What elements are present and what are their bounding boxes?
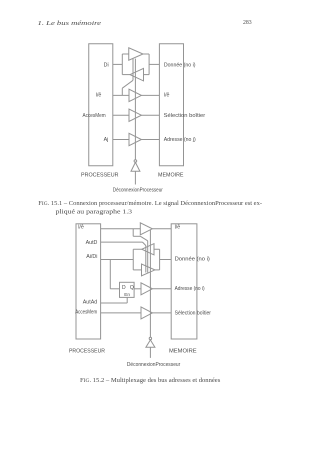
wire DeconnexionProcesseur stub (fig 15.1)	[134, 171, 136, 184]
svg-text:Sélection boîtier: Sélection boîtier	[175, 310, 212, 316]
inverter bubble (fig 15.2)	[149, 337, 151, 339]
wire transceiver bottom-left horizontal (fig 15.2)	[133, 269, 141, 271]
wire Selection boitier output	[141, 114, 159, 116]
wire l/e input	[113, 94, 129, 96]
wire transceiver left vertical (fig 15.2)	[132, 249, 134, 270]
wire enable vertical from l/e buffer to inverter (fig 15.2)	[149, 230, 151, 337]
wire l/e output	[141, 94, 159, 96]
wire transceiver right vertical	[148, 54, 150, 75]
svg-text:Adresse (no i): Adresse (no i)	[175, 286, 205, 292]
wire transceiver top-left horizontal	[122, 53, 128, 55]
memory box (fig 15.1)	[159, 44, 183, 166]
svg-text:l/ē: l/ē	[96, 93, 102, 99]
svg-text:Sélection boîtier: Sélection boîtier	[164, 113, 206, 119]
svg-text:l/ē: l/ē	[78, 225, 84, 231]
svg-text:FIG. 15.1 – Connexion processe: FIG. 15.1 – Connexion processeur/mémoire…	[38, 201, 262, 207]
wire transceiver top-left horizontal (fig 15.2)	[133, 248, 142, 250]
svg-text:l/ē: l/ē	[164, 93, 170, 99]
wire Donnee from transceiver to memory	[149, 63, 159, 65]
wire Selection boitier output (fig 15.2)	[152, 312, 171, 314]
tri-state buffer Aj (fig 15.1)	[129, 133, 141, 145]
tri-state buffer write direction (fig 15.2, points right)	[142, 264, 155, 276]
wire Aj input	[113, 139, 129, 141]
svg-text:FIG. 15.2 – Multiplexage des b: FIG. 15.2 – Multiplexage des bus adresse…	[80, 378, 221, 384]
svg-text:Q: Q	[130, 285, 134, 291]
wire to latch D input	[110, 288, 119, 290]
svg-text:Donnée (no i): Donnée (no i)	[175, 257, 211, 263]
wire transceiver bottom-right horizontal (fig 15.2)	[155, 269, 160, 271]
wire Donnee from transceiver to memory (fig 15.2)	[160, 259, 172, 261]
inverter bubble (fig 15.1)	[134, 160, 137, 163]
wire AutAd from processor	[101, 302, 128, 304]
svg-text:PROCESSEUR: PROCESSEUR	[69, 348, 105, 354]
inverter triangle pointing up (fig 15.2)	[146, 340, 155, 347]
svg-text:pliqué au paragraphe 1.3: pliqué au paragraphe 1.3	[56, 210, 132, 216]
wire transceiver bottom-right horizontal	[144, 74, 150, 76]
svg-text:AccesMem: AccesMem	[75, 310, 97, 316]
tri-state buffer read direction (fig 15.2, points left)	[142, 244, 154, 255]
wire latch Q output	[134, 288, 141, 290]
tri-state buffer AccesMem (fig 15.1)	[129, 109, 141, 121]
svg-text:l/ē: l/ē	[175, 225, 181, 231]
svg-text:PROCESSEUR: PROCESSEUR	[81, 173, 119, 179]
tri-state buffer write direction (fig 15.1, points right)	[129, 48, 143, 61]
wire vertical tap down to l/e line	[121, 88, 123, 95]
wire l/e tap diagonal to direction control	[140, 236, 147, 241]
tri-state buffer read direction (fig 15.1, points left)	[130, 68, 144, 81]
wire AutD from processor	[101, 241, 143, 243]
memory box (fig 15.2)	[171, 224, 197, 339]
wire transceiver bottom-left horizontal	[122, 74, 130, 76]
processor box (fig 15.2)	[76, 224, 101, 339]
wire diagonal from direction control to l/e tap	[122, 80, 133, 88]
tri-state buffer Adresse (fig 15.2)	[141, 283, 152, 295]
wire AutD diagonal to enable of transceiver	[143, 242, 146, 245]
wire transceiver top-right horizontal (fig 15.2)	[154, 248, 160, 250]
latch D Q box	[120, 282, 135, 297]
svg-text:MEMOIRE: MEMOIRE	[169, 348, 197, 354]
wire transceiver right vertical (fig 15.2)	[159, 249, 161, 270]
wire AccesMem input	[113, 114, 129, 116]
wire direction control vertical through data buffers	[132, 58, 134, 80]
tri-state buffer l/e (fig 15.1)	[129, 89, 141, 101]
wire AutD enable vertical through transceiver	[145, 246, 147, 273]
wire AccesMem input (fig 15.2)	[101, 312, 141, 314]
svg-text:AutD: AutD	[86, 240, 98, 246]
wire Ai/Di tap down to latch D input	[109, 260, 111, 289]
svg-text:MEMOIRE: MEMOIRE	[158, 173, 184, 179]
tri-state buffer l/e (fig 15.2)	[140, 223, 152, 235]
svg-text:AccesMem: AccesMem	[83, 113, 107, 119]
wire transceiver left vertical	[121, 54, 123, 75]
inverter triangle pointing up (fig 15.1)	[131, 162, 140, 171]
svg-text:DéconnexionProcesseur: DéconnexionProcesseur	[127, 362, 181, 368]
tri-state buffer Selection boitier (fig 15.2)	[141, 307, 152, 319]
wire direction control vertical (fig 15.2)	[147, 241, 149, 273]
wire l/e tap horizontal	[133, 235, 140, 237]
svg-text:1. Le bus mémoire: 1. Le bus mémoire	[38, 20, 102, 27]
svg-text:Donnée (no i): Donnée (no i)	[164, 62, 196, 68]
svg-text:En: En	[124, 292, 130, 297]
wire Adresse output (fig 15.2)	[152, 288, 171, 290]
wire transceiver top-right horizontal	[143, 53, 149, 55]
wire latch En stub	[126, 297, 128, 303]
svg-text:Adresse (no j): Adresse (no j)	[164, 137, 196, 143]
svg-text:AutAd: AutAd	[83, 299, 97, 305]
processor box (fig 15.1)	[89, 44, 113, 166]
svg-text:Ai/Di: Ai/Di	[86, 254, 97, 260]
wire l/e tap stub down	[132, 229, 134, 237]
wire DeconnexionProcesseur stub (fig 15.2)	[149, 347, 151, 358]
wire l/e input (fig 15.2)	[101, 228, 141, 230]
wire Ai/Di from processor to transceiver	[101, 259, 134, 261]
wire enable vertical from buffers to inverter	[134, 59, 136, 160]
svg-text:283: 283	[243, 20, 252, 26]
svg-text:DéconnexionProcesseur: DéconnexionProcesseur	[113, 187, 163, 193]
wire Adresse output	[141, 139, 159, 141]
wire l/e output (fig 15.2)	[152, 228, 171, 230]
svg-text:Aj: Aj	[104, 137, 109, 143]
wire Di from processor to transceiver	[113, 63, 123, 65]
svg-text:D: D	[122, 285, 126, 291]
svg-text:Di: Di	[104, 62, 109, 68]
